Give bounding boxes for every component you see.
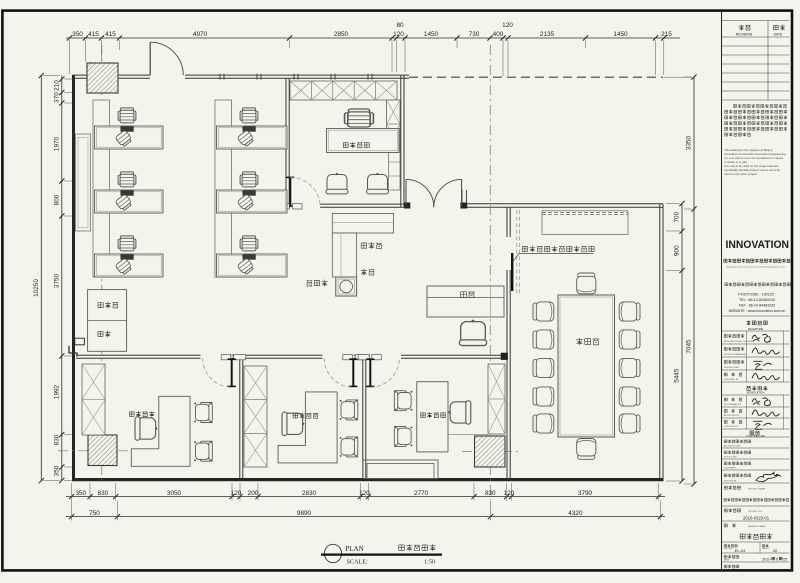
svg-text:730: 730	[469, 31, 480, 38]
office4 desk	[327, 129, 400, 153]
dashed existing wall top right	[409, 76, 663, 78]
monitor col1 row2	[121, 191, 134, 196]
svg-text:9890: 9890	[297, 510, 312, 517]
bottom exterior wall	[72, 478, 664, 481]
svg-text:TEL : 86-10-84483230: TEL : 86-10-84483230	[739, 298, 775, 302]
signature row approved	[724, 409, 727, 412]
office2 manager chair	[282, 412, 304, 436]
waiting area label	[361, 243, 366, 248]
svg-text:ARCHITECTURAL DESIGNER: ARCHITECTURAL DESIGNER	[724, 340, 755, 343]
wall stub above right jamb	[461, 190, 463, 204]
svg-text:ELECTRICAL: ELECTRICAL	[724, 479, 738, 482]
partition office2/office1	[362, 358, 364, 478]
right dimension chain outer	[693, 77, 695, 484]
svg-text:DRAWING NAME: DRAWING NAME	[748, 525, 766, 528]
svg-text:3350: 3350	[686, 135, 693, 150]
svg-text:900: 900	[674, 245, 681, 256]
office2 door jambs	[343, 355, 353, 360]
office3 label	[129, 412, 134, 417]
svg-text:1970: 1970	[54, 136, 61, 151]
wall left exterior	[72, 75, 75, 481]
svg-text:400: 400	[493, 31, 504, 38]
conference chair left 2	[533, 330, 554, 349]
svg-text:PROJECT NAME: PROJECT NAME	[748, 487, 766, 490]
conference table	[558, 295, 615, 437]
side chair col2 row2	[237, 194, 255, 212]
meeting room top cabinet dashed	[542, 211, 628, 235]
svg-text:350: 350	[75, 490, 86, 497]
axis line A vertical	[101, 45, 103, 480]
svg-text:WEBSITE : www.innovation.com.: WEBSITE : www.innovation.com.cn	[729, 309, 786, 313]
workstation panel column 2	[215, 100, 232, 277]
drawing name label	[724, 524, 727, 527]
signature row design chief	[724, 360, 727, 363]
task chair col1 row2	[118, 172, 136, 187]
verification header	[746, 387, 750, 391]
reception top wall	[467, 203, 663, 205]
dwg no cell	[724, 545, 727, 547]
svg-text:750: 750	[89, 510, 100, 517]
waiting area counter vertical	[332, 233, 356, 277]
project name value	[724, 499, 727, 502]
office1 manager chair	[448, 401, 470, 425]
office1 door swing arc	[370, 358, 399, 387]
svg-text:80: 80	[396, 22, 404, 29]
svg-text:10250: 10250	[33, 279, 40, 297]
office4 guest chair 1	[326, 173, 348, 194]
svg-text:CHECKED BY: CHECKED BY	[724, 426, 739, 428]
row architecture chief	[724, 440, 727, 443]
office4 side cabinet with X	[387, 100, 401, 148]
revision header	[739, 25, 744, 31]
monitor col1 row1	[121, 127, 134, 132]
side chair col2 row3	[237, 258, 255, 276]
interior wall y356	[76, 354, 201, 356]
desk col1 row2	[95, 190, 163, 213]
svg-text:POSTCODE : 100125: POSTCODE : 100125	[738, 292, 773, 296]
svg-text:700: 700	[674, 211, 681, 222]
office2 label	[293, 413, 298, 418]
svg-text:120: 120	[359, 490, 370, 497]
tea label	[361, 269, 367, 276]
office3 guest chair 1	[194, 402, 213, 423]
sliding door label	[522, 246, 527, 251]
sliding door leaf meeting room	[511, 253, 513, 291]
meeting room left wall lower segment	[506, 270, 508, 480]
office1 door leaf	[369, 359, 371, 387]
meeting room label	[576, 338, 583, 345]
project name label	[724, 486, 727, 489]
print area cabinet	[88, 290, 127, 352]
side chair col2 row1	[237, 130, 255, 148]
svg-text:SIGNATURE: SIGNATURE	[748, 327, 764, 331]
svg-text:SHEET: SHEET	[762, 548, 769, 550]
office4 bottom wall segment	[286, 203, 290, 205]
water dispenser	[336, 277, 357, 296]
svg-text:830: 830	[98, 490, 109, 497]
office4 door jambs	[284, 204, 289, 209]
conference chair top	[577, 273, 596, 294]
svg-text:120: 120	[502, 22, 513, 29]
task chair col1 row3	[118, 236, 136, 251]
svg-text:02: 02	[773, 548, 778, 553]
address line	[725, 283, 728, 286]
desk col2 row2	[217, 190, 288, 213]
svg-text:used on any other project.: used on any other project.	[724, 172, 758, 176]
title block left divider	[721, 11, 723, 570]
svg-text:25: 25	[783, 558, 787, 562]
svg-text:2830: 2830	[302, 490, 317, 497]
workstation panel column 1	[93, 100, 110, 277]
svg-text:INNOVATION: INNOVATION	[726, 239, 790, 251]
door jamb block left of double door	[405, 203, 410, 208]
sliding door pocket dashed	[516, 210, 518, 295]
double entrance door right leaf	[461, 179, 463, 207]
svg-text:2770: 2770	[414, 490, 429, 497]
monitor col2 row3	[243, 255, 256, 260]
wall node square	[501, 353, 507, 359]
right dimension chain inner	[681, 204, 683, 482]
meeting room left wall upper segment	[506, 207, 508, 237]
desk col2 row1	[217, 126, 288, 149]
svg-text:1992: 1992	[54, 384, 61, 399]
svg-text:1450: 1450	[424, 31, 439, 38]
svg-text:VERIFICATION: VERIFICATION	[747, 391, 765, 395]
server cabinet label	[98, 332, 103, 337]
svg-text:4320: 4320	[568, 510, 583, 517]
svg-text:FAX : 86-10-84483230: FAX : 86-10-84483230	[739, 303, 775, 307]
svg-text:200: 200	[248, 490, 259, 497]
svg-text:DATE: DATE	[774, 33, 784, 37]
plan chinese title	[399, 545, 405, 550]
task chair col1 row1	[118, 108, 136, 123]
office2 door leaf	[352, 359, 354, 387]
office1 sofa	[363, 460, 438, 479]
svg-text:350: 350	[54, 465, 61, 476]
conference chair right 1	[619, 302, 640, 321]
svg-text:215: 215	[661, 31, 672, 38]
project no label	[724, 509, 727, 512]
conference chair bottom	[577, 439, 596, 460]
contractor header	[750, 431, 754, 435]
conference chair left 1	[533, 302, 554, 321]
design signature header	[746, 320, 750, 325]
svg-text:5445: 5445	[674, 368, 681, 383]
svg-text:APPROVED BY: APPROVED BY	[724, 414, 740, 417]
double entrance door left leaf	[405, 179, 407, 207]
svg-text:830: 830	[485, 490, 496, 497]
office4 top cabinet with X	[290, 81, 397, 100]
office3 door leaf	[231, 359, 233, 387]
office1 guest chair 2	[394, 426, 413, 447]
office2 guest chair 1	[340, 399, 359, 420]
plan right wall	[659, 204, 661, 481]
revision table	[722, 20, 790, 22]
svg-text:PROOFREAD BY: PROOFREAD BY	[724, 403, 742, 406]
signature row designed by	[724, 373, 727, 376]
structural column bottom-left (hatched)	[88, 435, 117, 466]
desk col1 row1	[95, 126, 163, 149]
side chair col1 row3	[115, 258, 133, 276]
office2 shelf cabinet	[244, 366, 267, 467]
sheet cell	[762, 545, 765, 547]
office1 door jambs	[372, 355, 382, 360]
bottom dimension row2	[66, 516, 665, 518]
water dispenser label	[306, 281, 312, 286]
svg-text:REVISION: REVISION	[736, 33, 753, 37]
date row	[724, 555, 727, 558]
wall top window, right of door	[185, 74, 409, 76]
svg-text:DESIGN CHIEF: DESIGN CHIEF	[724, 367, 740, 369]
office3 desk L	[131, 396, 190, 466]
svg-text:EQUIPMENT: EQUIPMENT	[724, 467, 737, 469]
office3 guest chair 2	[194, 441, 213, 462]
office2 door swing arc	[324, 358, 353, 387]
conference chair right 5	[619, 414, 640, 433]
svg-text:800: 800	[54, 194, 61, 205]
electric panel on wall	[75, 338, 85, 345]
conference chair right 3	[619, 358, 640, 377]
svg-text:370: 370	[54, 92, 61, 103]
copyright chinese paragraph	[733, 104, 736, 107]
svg-text:210: 210	[54, 80, 61, 91]
side chair col1 row1	[115, 130, 133, 148]
plan title line	[321, 553, 442, 555]
svg-text:3790: 3790	[578, 490, 593, 497]
signature row project manager	[724, 347, 727, 350]
svg-text:7045: 7045	[686, 339, 693, 354]
office4 door swing arc	[290, 177, 320, 207]
axis line C horizontal left	[58, 450, 136, 452]
office3 door jambs	[221, 355, 231, 360]
signature row architectural designer	[724, 334, 727, 337]
window mullion ticks	[219, 74, 221, 80]
waiting area counter horizontal	[332, 214, 393, 234]
office4 executive chair	[345, 109, 374, 127]
row electrical chief	[724, 474, 727, 477]
entry door top-left	[149, 42, 151, 75]
company name chinese	[724, 259, 727, 262]
left dimension chain inner	[61, 76, 63, 482]
svg-text:350: 350	[72, 31, 83, 38]
office2 desk L	[278, 392, 337, 463]
svg-text:415: 415	[88, 31, 99, 38]
reception chair	[459, 320, 486, 346]
wall top with window, left of door	[72, 74, 150, 76]
office1 guest chair 1	[394, 390, 413, 411]
side chair col1 row2	[115, 194, 133, 212]
plan title circle	[324, 544, 341, 562]
svg-text:6: 6	[776, 558, 778, 562]
partition office3/office2	[239, 358, 241, 478]
conference chair left 3	[533, 358, 554, 377]
task chair col2 row1	[240, 108, 258, 123]
svg-text:PROJECT MANAGER: PROJECT MANAGER	[724, 353, 746, 356]
svg-text:120: 120	[504, 490, 515, 497]
axis line C horizontal right	[462, 450, 518, 452]
svg-text:PLAN: PLAN	[346, 545, 364, 553]
structural column bottom-right (hatched)	[475, 436, 506, 467]
svg-text:DATE: DATE	[724, 558, 730, 561]
svg-text:120: 120	[231, 490, 242, 497]
svg-text:415: 415	[105, 31, 116, 38]
conference chair right 2	[619, 330, 640, 349]
svg-text:2135: 2135	[540, 31, 555, 38]
conference chair left 4	[533, 387, 554, 406]
conference chair right 4	[619, 387, 640, 406]
signature row checked	[724, 420, 727, 423]
monitor col2 row1	[243, 127, 256, 132]
desk col1 row3	[95, 254, 163, 277]
office4 wardrobe	[389, 148, 401, 190]
bottom dimension row1	[66, 496, 665, 498]
conference chair left 5	[533, 414, 554, 433]
svg-text:SCALE:: SCALE:	[347, 558, 369, 565]
archive row	[724, 565, 727, 568]
door jamb block right of double door	[461, 203, 467, 208]
office3 door swing arc	[203, 358, 232, 387]
svg-text:3050: 3050	[167, 490, 182, 497]
monitor col2 row2	[243, 191, 256, 196]
row equipment chief	[724, 462, 727, 465]
svg-text:1450: 1450	[613, 31, 628, 38]
svg-text:830: 830	[54, 434, 61, 445]
reception desk	[427, 286, 504, 317]
top dimension line	[66, 37, 680, 39]
axis line B vertical	[489, 45, 491, 500]
reception desk label	[461, 292, 467, 298]
svg-text:ARCHITECTURE: ARCHITECTURE	[724, 444, 741, 447]
office4 right wall	[400, 75, 402, 207]
left dimension chain outer 10250	[40, 76, 42, 482]
office4 label	[343, 143, 348, 148]
office4 door leaf	[289, 177, 291, 206]
office3 shelf cabinet	[82, 364, 105, 435]
svg-text:120: 120	[393, 31, 404, 38]
svg-text:DESIGNED BY: DESIGNED BY	[724, 379, 739, 381]
office4 partition wall	[285, 78, 287, 207]
drawing name value	[740, 534, 745, 539]
task chair col2 row2	[240, 172, 258, 187]
structural column top-left (hatched)	[87, 63, 118, 93]
print area label	[98, 302, 103, 307]
svg-text:3750: 3750	[54, 273, 61, 288]
svg-text:PROJECT NO.: PROJECT NO.	[748, 511, 763, 513]
svg-text:DWG NO.: DWG NO.	[724, 548, 733, 550]
office1 label	[421, 413, 426, 418]
svg-text:1:50: 1:50	[424, 558, 435, 565]
office1 desk	[417, 382, 448, 452]
svg-text:Beijing Innovation Constructio: Beijing Innovation Construction Decorati…	[726, 266, 785, 269]
svg-text:2010-0323-01: 2010-0323-01	[743, 515, 770, 520]
svg-text:STRUCTURE: STRUCTURE	[724, 456, 737, 458]
task chair col2 row3	[240, 236, 258, 251]
svg-text:4970: 4970	[193, 31, 208, 38]
svg-text:EL-04: EL-04	[735, 548, 746, 553]
svg-text:2010: 2010	[762, 558, 770, 562]
office1 shelf cabinet	[488, 364, 505, 434]
office4 guest chair 2	[366, 173, 388, 194]
radiator on left wall	[76, 134, 91, 231]
svg-text:2850: 2850	[334, 31, 349, 38]
monitor col1 row3	[121, 255, 134, 260]
desk col2 row3	[217, 254, 288, 277]
office2 guest chair 2	[340, 436, 359, 457]
row structure chief	[724, 451, 727, 454]
signature row proofread	[724, 398, 727, 401]
office3 manager chair	[135, 417, 157, 441]
